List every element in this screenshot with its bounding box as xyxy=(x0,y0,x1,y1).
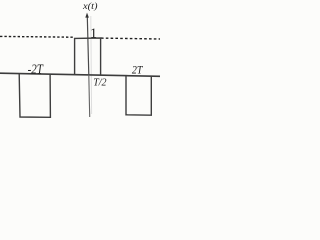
svg-text:T/2: T/2 xyxy=(93,78,106,89)
svg-text:2T: 2T xyxy=(132,64,143,77)
svg-text:x(t): x(t) xyxy=(82,2,98,12)
svg-text:-2T: -2T xyxy=(28,61,44,77)
svg-text:1: 1 xyxy=(90,26,97,41)
